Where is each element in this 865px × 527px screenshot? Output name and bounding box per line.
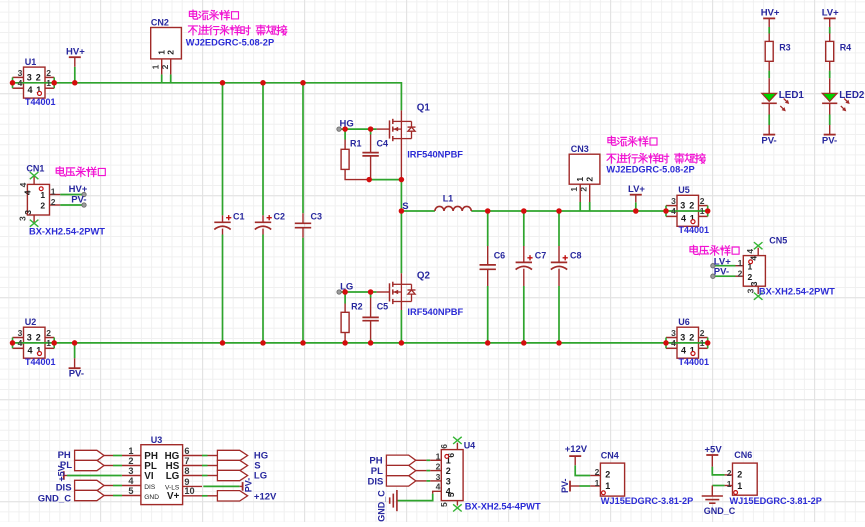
svg-text:BX-XH2.54-2PWT: BX-XH2.54-2PWT: [759, 287, 835, 297]
svg-text:1: 1: [727, 479, 732, 489]
svg-text:4: 4: [671, 338, 676, 348]
svg-text:L1: L1: [443, 193, 454, 203]
svg-text:GND_C: GND_C: [38, 494, 71, 505]
svg-text:U5: U5: [678, 185, 690, 195]
svg-text:PV-: PV-: [244, 478, 254, 493]
svg-text:BX-XH2.54-4PWT: BX-XH2.54-4PWT: [465, 502, 541, 512]
svg-text:PV-: PV-: [560, 478, 570, 493]
svg-text:2: 2: [436, 462, 441, 472]
svg-text:1: 1: [46, 78, 51, 88]
svg-text:WJ2EDGRC-5.08-2P: WJ2EDGRC-5.08-2P: [186, 38, 274, 48]
svg-text:GND_C: GND_C: [376, 490, 386, 522]
svg-text:C4: C4: [377, 138, 389, 148]
svg-text:+5V: +5V: [56, 465, 66, 481]
svg-text:4: 4: [749, 256, 759, 261]
svg-text:HV+: HV+: [66, 46, 85, 57]
svg-text:R4: R4: [840, 43, 852, 53]
svg-text:1: 1: [737, 481, 742, 491]
svg-text:3: 3: [680, 333, 685, 343]
svg-text:2: 2: [446, 466, 451, 476]
svg-text:5: 5: [439, 502, 449, 507]
svg-text:2: 2: [578, 187, 588, 192]
svg-text:LED2: LED2: [839, 90, 865, 101]
svg-text:C7: C7: [535, 251, 547, 261]
svg-text:3: 3: [446, 476, 451, 486]
svg-text:4: 4: [23, 190, 33, 195]
svg-text:2: 2: [727, 468, 732, 478]
svg-text:HV+: HV+: [69, 184, 88, 195]
svg-text:4: 4: [128, 476, 134, 486]
svg-text:+12V: +12V: [565, 444, 588, 455]
svg-text:WJ15EDGRC-3.81-2P: WJ15EDGRC-3.81-2P: [730, 496, 822, 506]
svg-text:2: 2: [700, 328, 705, 338]
svg-text:7: 7: [184, 456, 189, 466]
svg-text:2: 2: [36, 73, 41, 83]
svg-text:PV-: PV-: [71, 195, 86, 206]
svg-text:C5: C5: [377, 302, 389, 312]
svg-text:PV-: PV-: [69, 369, 84, 380]
svg-text:CN6: CN6: [734, 450, 752, 460]
svg-text:3: 3: [680, 201, 685, 211]
svg-text:U6: U6: [678, 317, 690, 327]
svg-text:T44001: T44001: [25, 357, 56, 367]
svg-text:2: 2: [689, 333, 694, 343]
svg-text:1: 1: [128, 446, 133, 456]
svg-text:CN3: CN3: [571, 144, 589, 154]
svg-text:GND_C: GND_C: [704, 506, 736, 516]
svg-text:2: 2: [46, 68, 51, 78]
svg-text:4: 4: [27, 345, 32, 355]
svg-text:2: 2: [166, 50, 176, 55]
svg-text:3: 3: [18, 216, 28, 221]
svg-text:4: 4: [745, 249, 755, 254]
svg-text:+5V: +5V: [705, 445, 723, 456]
svg-text:BX-XH2.54-2PWT: BX-XH2.54-2PWT: [29, 226, 105, 236]
svg-text:WJ2EDGRC-5.08-2P: WJ2EDGRC-5.08-2P: [606, 165, 694, 175]
svg-text:PH: PH: [58, 450, 71, 461]
svg-text:GND: GND: [144, 494, 159, 501]
svg-text:3: 3: [671, 328, 676, 338]
svg-text:4: 4: [27, 85, 32, 95]
svg-text:2: 2: [46, 328, 51, 338]
svg-text:2: 2: [700, 196, 705, 206]
svg-text:C2: C2: [274, 211, 286, 221]
svg-text:1: 1: [700, 338, 705, 348]
svg-text:6: 6: [184, 446, 189, 456]
svg-text:2: 2: [40, 200, 45, 210]
svg-text:2: 2: [584, 177, 594, 182]
svg-text:1: 1: [436, 451, 441, 461]
svg-text:V+: V+: [167, 491, 180, 502]
svg-text:HV+: HV+: [761, 7, 780, 18]
svg-text:2: 2: [595, 467, 600, 477]
svg-text:R3: R3: [779, 43, 791, 53]
svg-text:1: 1: [595, 478, 600, 488]
svg-text:C6: C6: [494, 251, 506, 261]
svg-text:8: 8: [184, 466, 189, 476]
svg-text:DIS: DIS: [144, 484, 156, 491]
svg-text:1: 1: [51, 187, 56, 197]
svg-text:DIS: DIS: [56, 482, 72, 493]
svg-text:5: 5: [128, 486, 133, 496]
svg-text:T44001: T44001: [679, 357, 710, 367]
svg-text:2: 2: [51, 197, 56, 207]
svg-text:CN5: CN5: [769, 236, 787, 246]
svg-text:3: 3: [23, 210, 33, 215]
svg-text:6: 6: [439, 444, 449, 449]
svg-text:LG: LG: [166, 471, 180, 482]
svg-text:4: 4: [436, 482, 441, 492]
svg-text:LV+: LV+: [822, 7, 839, 18]
svg-text:1: 1: [605, 481, 610, 491]
svg-text:1: 1: [700, 206, 705, 216]
svg-text:2: 2: [36, 333, 41, 343]
svg-text:WJ15EDGRC-3.81-2P: WJ15EDGRC-3.81-2P: [601, 496, 693, 506]
svg-text:3: 3: [128, 466, 133, 476]
svg-text:4: 4: [18, 338, 23, 348]
svg-text:4: 4: [18, 182, 28, 187]
svg-text:1: 1: [46, 338, 51, 348]
svg-text:3: 3: [671, 196, 676, 206]
svg-text:U3: U3: [151, 435, 163, 445]
svg-text:2: 2: [737, 470, 742, 480]
svg-text:CN4: CN4: [601, 450, 619, 460]
svg-text:R1: R1: [350, 138, 362, 148]
svg-text:5: 5: [446, 492, 456, 497]
svg-text:PV-: PV-: [761, 136, 776, 147]
svg-text:DIS: DIS: [368, 476, 384, 487]
svg-text:2: 2: [689, 201, 694, 211]
svg-text:LG: LG: [254, 471, 267, 482]
svg-text:LED1: LED1: [779, 90, 805, 101]
svg-text:3: 3: [749, 281, 759, 286]
svg-text:4: 4: [681, 213, 686, 223]
svg-text:Q2: Q2: [417, 271, 431, 282]
svg-text:IRF540NPBF: IRF540NPBF: [407, 307, 463, 317]
svg-text:2: 2: [748, 272, 753, 282]
svg-text:2: 2: [605, 470, 610, 480]
svg-text:3: 3: [436, 472, 441, 482]
svg-text:10: 10: [184, 486, 194, 496]
svg-text:1: 1: [738, 258, 743, 268]
svg-text:U1: U1: [25, 57, 37, 67]
svg-text:PV-: PV-: [822, 136, 837, 147]
svg-text:4: 4: [18, 78, 23, 88]
svg-text:IRF540NPBF: IRF540NPBF: [407, 150, 463, 160]
svg-text:C1: C1: [233, 211, 245, 221]
svg-text:4: 4: [671, 206, 676, 216]
svg-text:C3: C3: [311, 211, 323, 221]
svg-text:2: 2: [160, 64, 170, 69]
svg-text:U2: U2: [25, 317, 37, 327]
svg-text:3: 3: [745, 288, 755, 293]
svg-text:3: 3: [27, 333, 32, 343]
svg-text:LV+: LV+: [628, 184, 645, 195]
svg-text:PV-: PV-: [714, 266, 729, 277]
svg-text:2: 2: [738, 269, 743, 279]
svg-text:1: 1: [40, 190, 45, 200]
svg-text:T44001: T44001: [679, 225, 710, 235]
svg-text:U4: U4: [464, 441, 476, 451]
svg-text:T44001: T44001: [25, 97, 56, 107]
svg-text:CN1: CN1: [26, 164, 44, 174]
svg-text:3: 3: [27, 73, 32, 83]
svg-text:3: 3: [18, 328, 23, 338]
svg-text:3: 3: [18, 68, 23, 78]
svg-text:CN2: CN2: [151, 17, 169, 27]
svg-text:+12V: +12V: [254, 492, 277, 503]
svg-text:R2: R2: [351, 302, 363, 312]
svg-text:2: 2: [128, 456, 133, 466]
svg-text:Q1: Q1: [417, 103, 431, 114]
svg-text:C8: C8: [570, 251, 582, 261]
svg-text:4: 4: [681, 345, 686, 355]
svg-text:VI: VI: [144, 471, 154, 482]
